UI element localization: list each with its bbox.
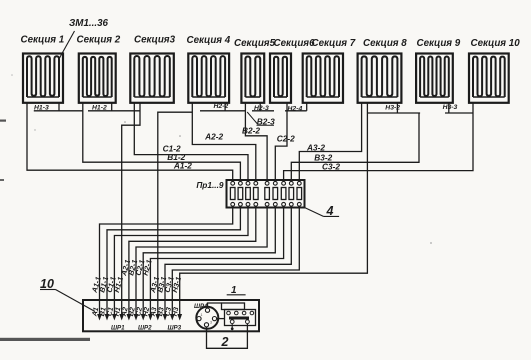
wire: fuse 8 output to connector arrow 10 [165,206,291,315]
wire: fuse 4 output to connector arrow 5 [129,206,256,315]
svg-text:Н1-2: Н1-2 [92,104,107,111]
heating element coil, section 2 [83,57,112,97]
leader and label 4 [305,208,324,217]
svg-text:Секция 4: Секция 4 [187,35,231,46]
wire С2-2: section6 right lead to fuse 6 [275,111,287,182]
svg-text:ЗМ1...36: ЗМ1...36 [69,18,109,29]
block 1 lower body [225,310,256,326]
heater section box 10 [469,54,509,103]
wire В3-2: from Н3-2 jumper to fuse 8 [291,113,419,181]
svg-text:Секция 7: Секция 7 [312,38,356,49]
wire Н2-1: from section4 lead down to arrow 9 [158,112,193,315]
arrow into connector: С2 [141,314,146,321]
heater section box 6 [270,54,291,103]
heater section box 7 [303,54,343,103]
svg-text:Н3-2: Н3-2 [385,105,400,112]
arrow into connector: С1 [112,314,117,321]
svg-text:Секция 9: Секция 9 [417,38,461,49]
fuse 6 [273,181,277,185]
heater section box 5 [241,54,264,103]
heater section box 2 [79,54,116,103]
neutral jumper Н2-2 (section4-section5) [224,103,226,111]
wire: fuse 3 output to connector arrow 3 [114,206,248,315]
heating element coil, section 7 [307,56,339,97]
svg-text:Н2-3: Н2-3 [254,105,269,112]
svg-text:С3-2: С3-2 [322,161,340,171]
wire: fuse 7 output to connector arrow 8 [150,206,283,315]
wire В1-2: section2 left lead to fuse 2 [83,103,241,182]
svg-text:Секция 10: Секция 10 [471,38,521,49]
block 1 terminal 3 [242,311,246,315]
arrow into connector: А3 [155,314,160,321]
arrow into connector: А1 [97,314,102,321]
block 1 bottom terminal right [246,320,250,324]
scan smudge bottom left [0,338,90,341]
wire: right pin of ШР4 to block 1 [217,318,225,320]
svg-text:Секция 1: Секция 1 [21,35,65,46]
fuse 9 [297,181,301,185]
block 1 terminal 1 [227,311,231,315]
block 1 terminal 4 [250,311,254,315]
neutral jumper Н2-3 (section5-section6) [259,103,261,111]
heating element coil, section 6 [274,57,287,97]
fuse block Пр1...9 outline [227,180,305,208]
wire С1-2: section3 left lead to fuse 3 [134,103,248,182]
arrow into connector: Н2 [148,314,153,321]
wire: fuse 5 output to connector arrow 6 [136,206,267,315]
svg-text:Секция 2: Секция 2 [77,35,121,46]
wire: top pin of ШР4 to block 1 [208,303,222,308]
svg-text:ШР2: ШР2 [138,325,152,332]
svg-text:Н2-2: Н2-2 [214,103,229,110]
wire Н3-1: from section8 down to arrow 12 [180,103,368,316]
arrow into connector: В3 [163,314,168,321]
wire: fuse 9 output to connector arrow 11 [172,206,299,315]
scan mark left edge [0,120,6,122]
fuse 8 [289,181,293,185]
heating element coil, section 4 [192,56,225,97]
svg-text:Секция5: Секция5 [234,38,276,49]
heating element coil, section 3 [134,56,170,97]
fuse 3 [246,181,250,185]
leader line to section 1 coil [60,31,75,58]
wire: fuse 1 output to connector arrow 1 [100,206,233,315]
neutral jumper Н3-2 (section8-section9) [396,103,398,113]
wire: fuse 6 output to connector arrow 7 [143,206,275,315]
svg-text:2: 2 [221,335,229,349]
svg-text:В2-2: В2-2 [242,125,260,135]
block 1 terminal 2 [235,311,239,315]
neutral jumper Н2-4 (section6-section7) [286,103,288,111]
fuse 7 [282,181,286,185]
svg-text:С1-2: С1-2 [163,143,181,153]
svg-text:ШР1: ШР1 [111,325,125,332]
svg-text:4: 4 [326,204,334,218]
heating element coil, section 5 [245,56,260,97]
wire А2-2: section4 left lead to fuse 4 [192,103,256,182]
svg-text:3: 3 [210,321,212,325]
neutral jumper Н1-3 (section1-section2) [58,103,60,111]
fuse 1 [231,181,235,185]
heating element coil, section 9 [420,56,449,97]
svg-text:10: 10 [40,277,54,291]
arrow into connector: В1 [105,314,110,321]
svg-text:Секция3: Секция3 [134,35,176,46]
wire: fuse 2 output to connector arrow 2 [107,206,240,315]
svg-text:А3-2: А3-2 [306,143,325,153]
fuse 5 [265,181,269,185]
block 1 upper body [222,303,245,310]
wire В2-2: section5 left lead to fuse 5 [245,103,267,182]
arrow into connector: С3 [170,314,175,321]
heating element coil, section 10 [473,57,505,97]
fuse 2 [239,181,243,185]
svg-text:ШР3: ШР3 [168,325,182,332]
neutral jumper Н1-2 (section2-section3) [111,103,113,111]
heater section box 4 [188,54,229,103]
neutral jumper Н3-3 (section9-section10) [448,103,450,113]
wire С3-2: section10 left lead to fuse 7 [284,103,473,182]
arrow into connector: А2 [127,314,132,321]
heater section box 3 [130,54,174,103]
svg-text:Секция 8: Секция 8 [363,38,407,49]
heater section box 8 [358,54,402,103]
connector block 10 outline [83,300,259,331]
svg-text:Секция6: Секция6 [274,38,316,49]
svg-text:1: 1 [201,313,203,317]
heater section box 1 [23,54,63,103]
round connector ШР4 [196,307,218,329]
block 1 contact bar [229,317,249,320]
heating element coil, section 8 [362,56,398,97]
fuse 4 [254,181,258,185]
svg-text:Н3-3: Н3-3 [443,104,458,111]
svg-text:С2-2: С2-2 [277,134,295,144]
wire Н1-1: from section3 area down to arrow 4 [122,103,140,316]
arrow into connector: В2 [134,314,139,321]
arrow into connector: Н1 [119,314,124,321]
svg-text:А2-2: А2-2 [204,132,223,142]
svg-text:В1-2: В1-2 [167,152,185,162]
heating element coil, section 1 [27,56,59,97]
arrow into connector: Н3 [177,314,182,321]
wire loop to item 2 [207,324,248,349]
wire А1-2: section1 left lead to fuse 1 [27,103,233,182]
svg-text:Н2-4: Н2-4 [288,106,303,113]
svg-text:Н1-3: Н1-3 [34,104,49,111]
block 1 bottom terminal left [230,320,234,324]
heater section box 9 [416,54,453,103]
wire А3-2: section8 left lead to fuse 9 [299,103,361,182]
svg-text:Пр1...9: Пр1...9 [196,180,224,190]
